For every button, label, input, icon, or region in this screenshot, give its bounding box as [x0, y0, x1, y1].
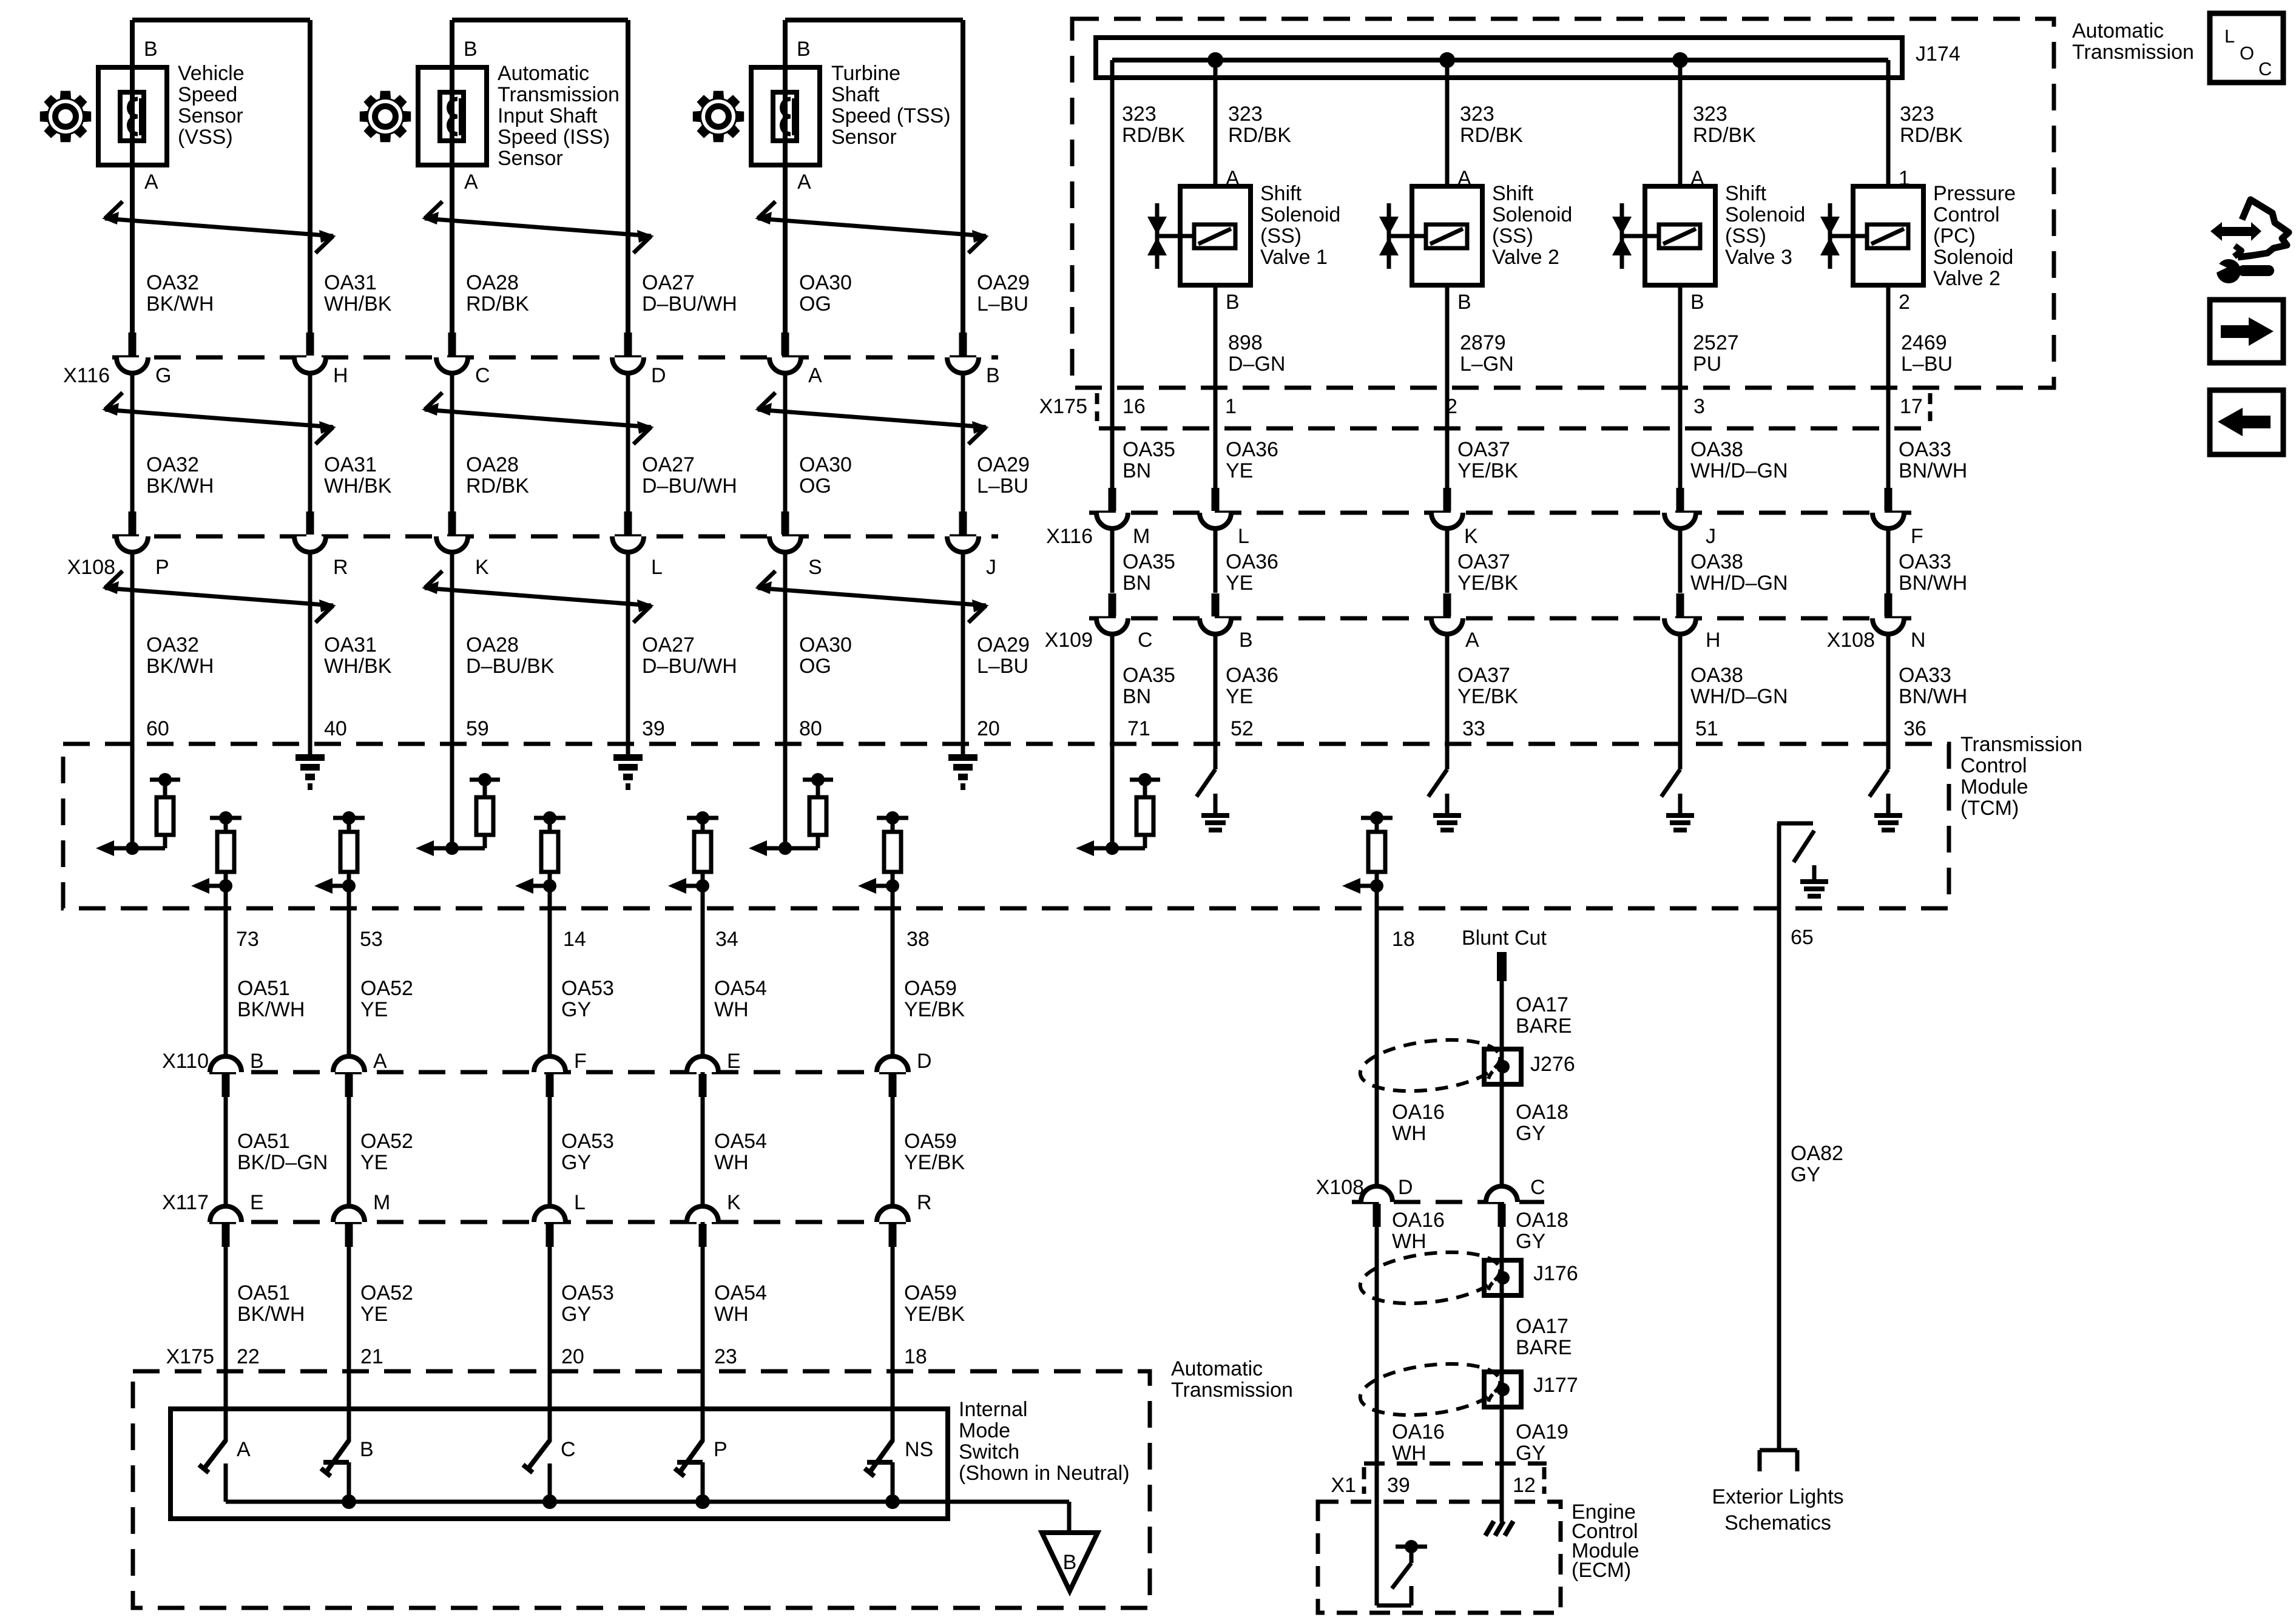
svg-text:BN: BN [1123, 459, 1151, 482]
svg-text:B: B [1690, 291, 1704, 314]
svg-text:OA53: OA53 [561, 1281, 614, 1305]
svg-text:Sensor: Sensor [831, 126, 897, 149]
svg-text:Speed (ISS): Speed (ISS) [498, 126, 610, 149]
svg-text:X109: X109 [1045, 629, 1093, 652]
svg-text:36: 36 [1903, 717, 1926, 740]
svg-text:NS: NS [905, 1438, 933, 1461]
svg-text:S: S [808, 556, 822, 579]
svg-text:B: B [1226, 291, 1240, 314]
svg-text:GY: GY [561, 1151, 591, 1174]
svg-text:PU: PU [1693, 353, 1721, 376]
svg-text:C: C [475, 364, 490, 387]
svg-text:D–BU/WH: D–BU/WH [642, 655, 737, 678]
svg-text:YE/BK: YE/BK [904, 1151, 965, 1174]
svg-text:Automatic: Automatic [1171, 1357, 1263, 1380]
svg-text:323: 323 [1900, 103, 1934, 126]
svg-text:RD/BK: RD/BK [1460, 124, 1523, 147]
svg-text:OA32: OA32 [146, 453, 199, 476]
svg-text:OA37: OA37 [1457, 550, 1510, 573]
svg-text:2469: 2469 [1901, 331, 1947, 354]
svg-text:L: L [2224, 25, 2235, 47]
svg-text:O: O [2240, 42, 2254, 64]
svg-text:Automatic: Automatic [498, 62, 589, 85]
svg-text:Transmission: Transmission [498, 83, 620, 106]
svg-text:60: 60 [146, 717, 169, 740]
svg-text:OA54: OA54 [714, 977, 767, 1000]
svg-text:Module: Module [1960, 775, 2028, 798]
svg-text:D: D [1398, 1176, 1413, 1199]
svg-text:Solenoid: Solenoid [1260, 203, 1340, 226]
svg-text:14: 14 [563, 928, 586, 951]
svg-text:X175: X175 [166, 1345, 214, 1368]
svg-text:H: H [1706, 629, 1721, 652]
svg-text:L–GN: L–GN [1460, 353, 1514, 376]
svg-text:H: H [333, 364, 348, 387]
svg-text:D–BU/WH: D–BU/WH [642, 292, 737, 316]
svg-text:OA51: OA51 [237, 1281, 290, 1305]
svg-text:Pressure: Pressure [1933, 182, 2016, 205]
svg-text:B: B [1239, 629, 1253, 652]
svg-text:B: B [464, 38, 478, 61]
svg-text:N: N [1911, 629, 1926, 652]
svg-text:BARE: BARE [1516, 1014, 1572, 1038]
svg-text:23: 23 [714, 1345, 737, 1368]
svg-text:OA38: OA38 [1690, 550, 1743, 573]
svg-text:Turbine: Turbine [831, 62, 900, 85]
svg-text:OA28: OA28 [466, 271, 519, 294]
svg-text:OA35: OA35 [1123, 438, 1175, 461]
svg-text:R: R [333, 556, 348, 579]
svg-text:WH: WH [1392, 1230, 1427, 1253]
svg-text:20: 20 [977, 717, 1000, 740]
svg-text:A: A [464, 170, 478, 194]
svg-text:M: M [373, 1191, 390, 1214]
svg-text:Switch: Switch [959, 1440, 1019, 1463]
svg-text:L–BU: L–BU [977, 655, 1028, 678]
svg-text:E: E [727, 1050, 741, 1073]
svg-text:OG: OG [799, 292, 831, 316]
svg-text:X175: X175 [1039, 395, 1087, 418]
svg-text:OA59: OA59 [904, 977, 957, 1000]
svg-text:BK/WH: BK/WH [146, 474, 214, 498]
svg-text:YE/BK: YE/BK [1457, 572, 1518, 595]
svg-text:Shift: Shift [1492, 182, 1534, 205]
svg-text:G: G [155, 364, 171, 387]
svg-text:Sensor: Sensor [178, 104, 243, 127]
svg-text:K: K [475, 556, 489, 579]
svg-text:YE: YE [1226, 685, 1253, 708]
svg-text:L: L [574, 1191, 586, 1214]
svg-text:GY: GY [1791, 1163, 1820, 1186]
svg-text:OA27: OA27 [642, 633, 695, 657]
svg-text:WH: WH [1392, 1122, 1427, 1145]
svg-text:OA51: OA51 [237, 977, 290, 1000]
svg-text:OA59: OA59 [904, 1130, 957, 1153]
svg-text:L: L [1238, 525, 1249, 548]
svg-text:WH/D–GN: WH/D–GN [1690, 685, 1788, 708]
svg-text:WH: WH [1392, 1442, 1427, 1465]
svg-text:OG: OG [799, 655, 831, 678]
svg-text:C: C [2258, 58, 2272, 79]
svg-text:16: 16 [1123, 395, 1146, 418]
svg-text:39: 39 [642, 717, 665, 740]
svg-text:(SS): (SS) [1725, 224, 1766, 248]
svg-text:Mode: Mode [959, 1419, 1010, 1442]
svg-text:YE: YE [1226, 459, 1253, 482]
svg-text:P: P [155, 556, 169, 579]
svg-text:BARE: BARE [1516, 1336, 1572, 1359]
svg-text:D–GN: D–GN [1228, 353, 1285, 376]
svg-text:323: 323 [1228, 103, 1263, 126]
svg-text:1: 1 [1899, 167, 1910, 190]
svg-text:D–BU/BK: D–BU/BK [466, 655, 555, 678]
svg-text:Solenoid: Solenoid [1492, 203, 1572, 226]
svg-text:(ECM): (ECM) [1572, 1559, 1631, 1582]
svg-text:X116: X116 [1046, 525, 1093, 548]
svg-text:OA30: OA30 [799, 271, 852, 294]
svg-text:OA52: OA52 [360, 1281, 413, 1305]
svg-text:A: A [808, 364, 822, 387]
svg-text:BN: BN [1123, 572, 1151, 595]
svg-text:OA53: OA53 [561, 1130, 614, 1153]
svg-text:323: 323 [1122, 103, 1156, 126]
svg-text:OA54: OA54 [714, 1281, 767, 1305]
svg-text:OA18: OA18 [1516, 1209, 1568, 1232]
svg-text:F: F [574, 1050, 587, 1073]
svg-text:GY: GY [561, 998, 591, 1021]
svg-text:OA38: OA38 [1690, 664, 1743, 687]
svg-text:D–BU/WH: D–BU/WH [642, 474, 737, 498]
svg-text:WH/D–GN: WH/D–GN [1690, 572, 1788, 595]
svg-text:Schematics: Schematics [1724, 1511, 1831, 1534]
svg-text:WH/BK: WH/BK [324, 655, 392, 678]
svg-text:YE/BK: YE/BK [904, 1303, 965, 1326]
svg-text:J276: J276 [1530, 1053, 1575, 1076]
svg-text:A: A [797, 170, 811, 194]
svg-text:WH: WH [714, 1303, 749, 1326]
svg-text:WH/D–GN: WH/D–GN [1690, 459, 1788, 482]
svg-text:OA29: OA29 [977, 633, 1030, 657]
svg-text:A: A [373, 1050, 387, 1073]
svg-text:RD/BK: RD/BK [1900, 124, 1963, 147]
svg-text:71: 71 [1127, 717, 1150, 740]
svg-text:GY: GY [561, 1303, 591, 1326]
svg-text:J: J [986, 556, 996, 579]
svg-text:RD/BK: RD/BK [1693, 124, 1756, 147]
svg-text:OA19: OA19 [1516, 1420, 1568, 1443]
svg-text:B: B [144, 38, 158, 61]
svg-text:RD/BK: RD/BK [1228, 124, 1291, 147]
svg-text:GY: GY [1516, 1122, 1545, 1145]
svg-text:OA35: OA35 [1123, 550, 1175, 573]
svg-text:X116: X116 [63, 364, 110, 387]
svg-text:GY: GY [1516, 1230, 1545, 1253]
svg-text:BN: BN [1123, 685, 1151, 708]
svg-text:22: 22 [237, 1345, 260, 1368]
svg-text:BK/WH: BK/WH [237, 1303, 305, 1326]
svg-text:OA33: OA33 [1899, 664, 1951, 687]
svg-text:BK/WH: BK/WH [146, 292, 214, 316]
svg-text:BK/D–GN: BK/D–GN [237, 1151, 328, 1174]
svg-text:2: 2 [1899, 291, 1910, 314]
svg-text:RD/BK: RD/BK [466, 474, 529, 498]
svg-text:B: B [1063, 1551, 1077, 1574]
svg-text:A: A [1690, 167, 1704, 190]
svg-text:21: 21 [360, 1345, 383, 1368]
svg-text:B: B [986, 364, 1000, 387]
svg-text:K: K [1464, 525, 1478, 548]
svg-text:65: 65 [1791, 926, 1814, 949]
svg-text:OA35: OA35 [1123, 664, 1175, 687]
svg-text:Internal: Internal [959, 1398, 1027, 1421]
svg-text:OA29: OA29 [977, 271, 1030, 294]
svg-text:B: B [360, 1438, 374, 1461]
svg-text:OA37: OA37 [1457, 438, 1510, 461]
svg-text:(VSS): (VSS) [178, 126, 233, 149]
svg-text:X108: X108 [1316, 1176, 1364, 1199]
svg-text:2527: 2527 [1693, 331, 1739, 354]
svg-text:K: K [727, 1191, 741, 1214]
svg-text:OG: OG [799, 474, 831, 498]
svg-text:BN/WH: BN/WH [1899, 685, 1967, 708]
svg-text:P: P [714, 1438, 728, 1461]
svg-text:J174: J174 [1916, 42, 1960, 66]
svg-text:A: A [144, 170, 158, 194]
svg-text:53: 53 [360, 928, 383, 951]
svg-text:X1: X1 [1331, 1474, 1356, 1497]
svg-text:Automatic: Automatic [2072, 19, 2164, 42]
svg-text:OA27: OA27 [642, 453, 695, 476]
svg-text:Solenoid: Solenoid [1933, 246, 2013, 269]
svg-text:OA37: OA37 [1457, 664, 1510, 687]
svg-text:OA28: OA28 [466, 633, 519, 657]
svg-text:33: 33 [1462, 717, 1485, 740]
svg-text:52: 52 [1231, 717, 1254, 740]
svg-text:Vehicle: Vehicle [178, 62, 245, 85]
svg-text:OA29: OA29 [977, 453, 1030, 476]
svg-text:OA31: OA31 [324, 453, 377, 476]
svg-text:Speed (TSS): Speed (TSS) [831, 104, 951, 127]
svg-text:(PC): (PC) [1933, 224, 1976, 248]
svg-text:A: A [1226, 167, 1240, 190]
svg-text:51: 51 [1695, 717, 1718, 740]
svg-text:BK/WH: BK/WH [237, 998, 305, 1021]
svg-text:Control: Control [1933, 203, 2000, 226]
svg-text:M: M [1133, 525, 1150, 548]
svg-text:OA36: OA36 [1226, 438, 1278, 461]
svg-text:Transmission: Transmission [1960, 733, 2082, 756]
svg-text:D: D [651, 364, 666, 387]
svg-text:2: 2 [1446, 395, 1457, 418]
svg-text:OA27: OA27 [642, 271, 695, 294]
svg-text:OA59: OA59 [904, 1281, 957, 1305]
svg-text:R: R [917, 1191, 932, 1214]
svg-text:OA30: OA30 [799, 633, 852, 657]
svg-text:YE/BK: YE/BK [904, 998, 965, 1021]
svg-text:OA82: OA82 [1791, 1142, 1843, 1165]
svg-text:3: 3 [1693, 395, 1705, 418]
svg-text:C: C [561, 1438, 576, 1461]
svg-text:OA17: OA17 [1516, 993, 1568, 1016]
svg-text:73: 73 [236, 928, 259, 951]
svg-text:J177: J177 [1533, 1374, 1578, 1397]
svg-text:80: 80 [799, 717, 822, 740]
svg-text:E: E [250, 1191, 264, 1214]
svg-text:OA16: OA16 [1392, 1101, 1445, 1124]
svg-text:(SS): (SS) [1492, 224, 1533, 248]
svg-text:OA54: OA54 [714, 1130, 767, 1153]
svg-text:Shaft: Shaft [831, 83, 880, 106]
svg-text:Control: Control [1960, 754, 2027, 777]
svg-text:L: L [651, 556, 663, 579]
svg-text:WH/BK: WH/BK [324, 292, 392, 316]
svg-text:WH: WH [714, 998, 749, 1021]
svg-text:OA30: OA30 [799, 453, 852, 476]
svg-text:OA18: OA18 [1516, 1101, 1568, 1124]
svg-text:D: D [917, 1050, 932, 1073]
svg-text:323: 323 [1693, 103, 1727, 126]
svg-text:1: 1 [1225, 395, 1237, 418]
svg-text:17: 17 [1900, 395, 1923, 418]
svg-text:RD/BK: RD/BK [466, 292, 529, 316]
svg-text:Solenoid: Solenoid [1725, 203, 1805, 226]
svg-text:Valve 2: Valve 2 [1933, 267, 2001, 290]
svg-text:YE: YE [360, 1303, 388, 1326]
svg-text:OA51: OA51 [237, 1130, 290, 1153]
svg-text:A: A [1457, 167, 1471, 190]
svg-text:Input Shaft: Input Shaft [498, 104, 598, 127]
svg-text:YE: YE [360, 1151, 388, 1174]
svg-text:Blunt Cut: Blunt Cut [1462, 927, 1547, 950]
svg-text:Transmission: Transmission [2072, 41, 2194, 64]
svg-text:F: F [1911, 525, 1923, 548]
svg-text:38: 38 [907, 928, 930, 951]
svg-text:Valve 3: Valve 3 [1725, 246, 1792, 269]
svg-text:B: B [797, 38, 811, 61]
svg-text:898: 898 [1228, 331, 1263, 354]
svg-text:18: 18 [1392, 928, 1415, 951]
svg-text:OA53: OA53 [561, 977, 614, 1000]
svg-text:X110: X110 [162, 1050, 209, 1073]
svg-text:40: 40 [324, 717, 347, 740]
svg-text:OA31: OA31 [324, 633, 377, 657]
svg-text:(TCM): (TCM) [1960, 797, 2019, 820]
svg-text:B: B [1457, 291, 1471, 314]
svg-text:20: 20 [561, 1345, 584, 1368]
svg-text:OA32: OA32 [146, 633, 199, 657]
svg-text:L–BU: L–BU [977, 474, 1028, 498]
svg-text:OA36: OA36 [1226, 550, 1278, 573]
svg-text:Shift: Shift [1260, 182, 1302, 205]
svg-text:BN/WH: BN/WH [1899, 459, 1967, 482]
svg-text:J176: J176 [1533, 1262, 1578, 1285]
svg-text:B: B [250, 1050, 264, 1073]
svg-text:59: 59 [466, 717, 489, 740]
svg-text:OA16: OA16 [1392, 1420, 1445, 1443]
svg-text:L–BU: L–BU [977, 292, 1028, 316]
svg-text:J: J [1706, 525, 1716, 548]
svg-text:YE: YE [1226, 572, 1253, 595]
svg-text:Transmission: Transmission [1171, 1379, 1293, 1402]
svg-text:(Shown in Neutral): (Shown in Neutral) [959, 1462, 1130, 1485]
svg-text:YE/BK: YE/BK [1457, 685, 1518, 708]
svg-text:C: C [1530, 1176, 1545, 1199]
svg-text:Shift: Shift [1725, 182, 1767, 205]
svg-text:WH: WH [714, 1151, 749, 1174]
svg-text:Sensor: Sensor [498, 147, 563, 170]
svg-text:OA17: OA17 [1516, 1315, 1568, 1338]
svg-text:18: 18 [904, 1345, 927, 1368]
svg-text:OA16: OA16 [1392, 1209, 1445, 1232]
svg-text:OA31: OA31 [324, 271, 377, 294]
svg-text:12: 12 [1513, 1474, 1536, 1497]
svg-text:OA28: OA28 [466, 453, 519, 476]
svg-text:OA38: OA38 [1690, 438, 1743, 461]
svg-text:34: 34 [715, 928, 738, 951]
svg-text:X108: X108 [67, 556, 115, 579]
svg-text:YE/BK: YE/BK [1457, 459, 1518, 482]
svg-text:A: A [237, 1438, 251, 1461]
svg-text:Valve 1: Valve 1 [1260, 246, 1328, 269]
svg-text:Exterior Lights: Exterior Lights [1712, 1485, 1843, 1508]
svg-text:X108: X108 [1827, 629, 1875, 652]
svg-text:BK/WH: BK/WH [146, 655, 214, 678]
svg-text:2879: 2879 [1460, 331, 1506, 354]
svg-text:Valve 2: Valve 2 [1492, 246, 1559, 269]
svg-text:OA52: OA52 [360, 1130, 413, 1153]
svg-text:RD/BK: RD/BK [1122, 124, 1185, 147]
svg-text:C: C [1138, 629, 1153, 652]
svg-text:(SS): (SS) [1260, 224, 1302, 248]
svg-text:GY: GY [1516, 1442, 1545, 1465]
svg-text:X117: X117 [162, 1191, 209, 1214]
svg-text:L–BU: L–BU [1901, 353, 1953, 376]
svg-text:BN/WH: BN/WH [1899, 572, 1967, 595]
svg-text:323: 323 [1460, 103, 1494, 126]
svg-text:OA33: OA33 [1899, 550, 1951, 573]
svg-text:WH/BK: WH/BK [324, 474, 392, 498]
svg-text:OA52: OA52 [360, 977, 413, 1000]
svg-text:OA33: OA33 [1899, 438, 1951, 461]
svg-text:Speed: Speed [178, 83, 237, 106]
svg-text:A: A [1465, 629, 1479, 652]
svg-text:OA36: OA36 [1226, 664, 1278, 687]
svg-text:OA32: OA32 [146, 271, 199, 294]
svg-text:YE: YE [360, 998, 388, 1021]
svg-text:39: 39 [1387, 1474, 1410, 1497]
